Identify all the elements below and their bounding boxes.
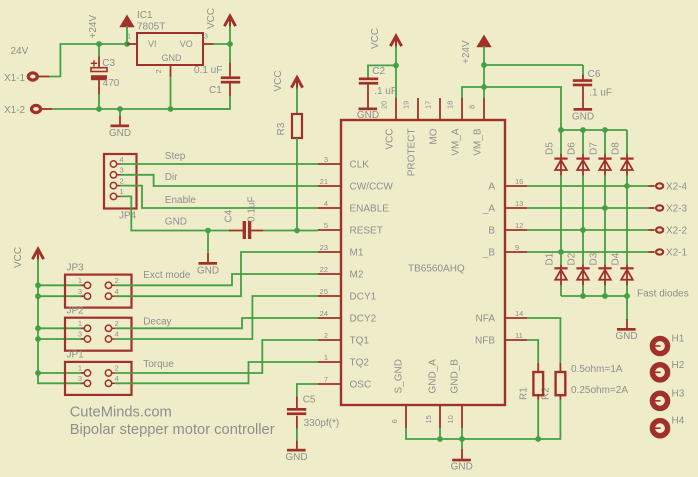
svg-text:Enable: Enable — [165, 195, 197, 206]
label 0.5ohm=1A — [571, 364, 623, 375]
IC pin 22 M2 — [318, 265, 364, 281]
svg-text:13: 13 — [515, 199, 523, 208]
svg-text:TQ2: TQ2 — [350, 358, 370, 369]
svg-text:2: 2 — [115, 364, 119, 373]
svg-text:D3: D3 — [589, 252, 600, 265]
svg-text:_A: _A — [482, 204, 496, 215]
svg-text:D8: D8 — [611, 142, 622, 155]
svg-text:A: A — [488, 182, 495, 193]
wire diode column 627 — [626, 176, 628, 265]
svg-text:VCC: VCC — [273, 70, 284, 91]
IC pin 3 CLK — [318, 155, 369, 171]
svg-text:19: 19 — [402, 101, 411, 109]
svg-text:1: 1 — [78, 276, 82, 285]
wire phase X2-1 — [527, 251, 648, 253]
svg-text:RESET: RESET — [350, 226, 383, 237]
svg-text:12: 12 — [515, 221, 523, 230]
svg-text:M1: M1 — [350, 248, 364, 259]
label Fast diodes — [637, 289, 689, 300]
diode D5 — [545, 130, 568, 176]
diode D3 — [589, 252, 612, 285]
svg-text:GND: GND — [162, 53, 183, 63]
svg-text:NFB: NFB — [475, 336, 495, 347]
supply +24V arrow (IC1) — [88, 15, 133, 43]
hole H3 — [652, 388, 684, 408]
hole H1 — [652, 334, 684, 354]
wire Step to CLK — [121, 163, 319, 165]
ground GND (input) — [109, 109, 131, 139]
svg-text:GND: GND — [285, 452, 307, 463]
svg-text:VCC: VCC — [384, 129, 395, 150]
diode D1 — [545, 252, 568, 285]
hole H2 — [652, 360, 684, 380]
node junction GND_A — [437, 436, 443, 442]
diode D8 — [611, 130, 634, 176]
svg-text:VCC: VCC — [206, 8, 217, 29]
wire D1 to bottom rail — [560, 285, 562, 296]
wire VCC to pin20 — [395, 65, 397, 98]
svg-text:NFA: NFA — [476, 314, 496, 325]
ground GND (C2) — [357, 108, 379, 122]
IC pin 23 M1 — [318, 243, 364, 259]
svg-text:18: 18 — [446, 101, 455, 109]
node junction +24V at C3 — [96, 41, 102, 47]
wire JP4 pin1 to GND net — [121, 196, 230, 230]
IC1 pin 1 VI — [127, 32, 137, 45]
wire rail to JP1 pin1 — [38, 372, 84, 374]
node junction rail jp2-1 — [35, 325, 41, 331]
IC pin 17 MO — [424, 98, 440, 145]
svg-text:X1-1: X1-1 — [4, 73, 26, 84]
svg-text:6: 6 — [390, 419, 399, 423]
svg-text:GND: GND — [109, 128, 131, 139]
wire VM_A up — [462, 87, 484, 98]
node junction X2-1 — [558, 249, 564, 255]
node junction +24V at IC1 pin1 — [124, 41, 130, 47]
wire OSC to C5 — [297, 384, 318, 397]
svg-text:H4: H4 — [672, 416, 685, 427]
IC pin 16 A — [488, 177, 527, 193]
wire D4 to bottom rail — [626, 285, 628, 296]
svg-text:D1: D1 — [545, 252, 556, 265]
svg-text:S_GND: S_GND — [394, 359, 405, 393]
svg-text:Fast diodes: Fast diodes — [637, 289, 689, 300]
wire phase X2-2 — [527, 229, 648, 231]
svg-text:R1: R1 — [519, 387, 530, 400]
svg-text:TB6560AHQ: TB6560AHQ — [408, 263, 465, 274]
wire rail to JP2 pin3 — [38, 338, 84, 340]
svg-text:X2-2: X2-2 — [666, 226, 688, 237]
wire JP1 pin2 to TQ1 — [115, 340, 318, 373]
svg-text:X2-3: X2-3 — [666, 204, 688, 215]
svg-text:VM_B: VM_B — [472, 128, 483, 156]
svg-text:C6: C6 — [588, 69, 601, 80]
svg-text:22: 22 — [320, 265, 328, 274]
node junction rail jp3-1 — [35, 282, 41, 288]
wire rail to JP2 pin1 — [38, 327, 84, 329]
wire GND_A drop — [439, 428, 441, 439]
IC pin 5 RESET — [318, 221, 383, 237]
node junction X2-3 — [602, 205, 608, 211]
svg-text:OSC: OSC — [350, 380, 372, 391]
IC pin 25 DCY1 — [318, 287, 377, 303]
label Enable — [165, 195, 197, 206]
IC pin 21 CW/CCW — [318, 177, 393, 193]
op-amp U1 TB6560AHQ body — [341, 120, 505, 405]
wire D2 to bottom rail — [582, 285, 584, 296]
wire phase X2-3 — [527, 207, 648, 209]
svg-text:IC1: IC1 — [137, 10, 153, 21]
ground GND (diodes) — [615, 296, 637, 342]
IC pin 6 S_GND — [390, 359, 406, 428]
svg-text:Exct mode: Exct mode — [143, 270, 191, 281]
svg-text:VO: VO — [180, 39, 193, 49]
svg-text:GND: GND — [165, 217, 187, 228]
svg-text:C3: C3 — [102, 58, 115, 69]
ground GND (JP4) — [197, 231, 219, 277]
IC pin 2 TQ1 — [318, 331, 369, 347]
wire GND_B drop — [461, 428, 463, 439]
wire diode top rail — [561, 129, 627, 131]
svg-text:25: 25 — [320, 287, 328, 296]
svg-text:C4: C4 — [224, 209, 235, 222]
node junction 24V-VM — [481, 84, 487, 90]
svg-text:15: 15 — [424, 415, 433, 423]
node junction gnd-C4 — [205, 228, 211, 234]
svg-text:4: 4 — [115, 330, 119, 339]
label Bipolar stepper motor controller — [70, 422, 275, 438]
node junction rail jp3-3 — [35, 293, 41, 299]
svg-text:.1 uF: .1 uF — [589, 88, 612, 99]
svg-text:16: 16 — [515, 177, 523, 186]
svg-text:C1: C1 — [209, 85, 222, 96]
svg-text:17: 17 — [424, 101, 433, 109]
wire Dir to CW/CCW — [121, 175, 319, 186]
svg-text:23: 23 — [320, 243, 328, 252]
svg-text:3: 3 — [204, 32, 208, 41]
label 24V — [11, 46, 29, 57]
wire JP3 pin4 to M1 — [115, 252, 318, 296]
svg-text:Dir: Dir — [165, 172, 178, 183]
resistor R2 — [538, 363, 565, 439]
node junction rail jp1-1 — [35, 370, 41, 376]
svg-text:Decay: Decay — [143, 317, 171, 328]
supply VCC arrow (C1) — [206, 8, 236, 43]
node junction brail D2 — [580, 293, 586, 299]
svg-text:0.1 uF: 0.1 uF — [194, 65, 222, 76]
svg-text:B: B — [488, 226, 495, 237]
svg-text:24: 24 — [320, 309, 328, 318]
node junction brail D3 — [602, 293, 608, 299]
svg-text:CW/CCW: CW/CCW — [350, 182, 394, 193]
svg-text:VI: VI — [148, 39, 157, 49]
wire 24V to diode rail — [484, 87, 561, 130]
svg-text:24V: 24V — [11, 46, 29, 57]
svg-text:9: 9 — [515, 243, 519, 252]
label 0.25ohm=2A — [571, 385, 628, 396]
svg-text:GND_B: GND_B — [450, 359, 461, 394]
wire GND rail bottom-left — [52, 108, 230, 110]
wire rail to JP3 pin3 — [38, 295, 84, 297]
svg-text:4: 4 — [115, 374, 119, 383]
wire JP1 pin4 to TQ2 — [115, 362, 318, 383]
hole H4 — [652, 416, 684, 436]
svg-text:3: 3 — [324, 155, 328, 164]
connector pad X2-2 — [648, 226, 687, 237]
diode D2 — [567, 252, 590, 285]
IC pin 14 NFA — [476, 309, 527, 325]
svg-text:H3: H3 — [672, 388, 685, 399]
wire IC gnd rail — [406, 428, 538, 439]
pin header JP4 — [104, 154, 137, 222]
svg-text:C5: C5 — [303, 395, 316, 406]
node junction X2-4 — [624, 183, 630, 189]
node junction X2-2 — [580, 227, 586, 233]
svg-text:3: 3 — [120, 166, 124, 175]
svg-text:3: 3 — [78, 330, 82, 339]
svg-text:0.25ohm=2A: 0.25ohm=2A — [571, 385, 628, 396]
svg-text:330pf(*): 330pf(*) — [304, 418, 340, 429]
svg-text:+24V: +24V — [461, 40, 472, 64]
svg-text:4: 4 — [324, 199, 328, 208]
svg-text:20: 20 — [380, 101, 389, 109]
wire X1-1 to +24V rail — [49, 44, 127, 77]
svg-text:.1 uF: .1 uF — [374, 86, 397, 97]
wire diode column 605 — [604, 176, 606, 265]
wire Enable to ENABLE — [121, 186, 319, 208]
supply +24V arrow (VM) — [461, 36, 490, 65]
svg-text:CuteMinds.com: CuteMinds.com — [70, 404, 172, 420]
svg-text:JP2: JP2 — [67, 305, 85, 316]
label GND (jp4) — [165, 217, 187, 228]
ground GND (C6) — [572, 108, 594, 123]
IC pin 7 OSC — [318, 375, 371, 391]
IC pin 11 NFB — [475, 331, 527, 347]
jumper JP1 — [65, 350, 174, 395]
svg-text:4: 4 — [115, 287, 119, 296]
node junction VCC at C1 — [227, 41, 233, 47]
wire NFB to R1 — [527, 340, 538, 363]
svg-text:2: 2 — [115, 319, 119, 328]
diode D7 — [589, 130, 612, 176]
node junction rail jp2-3 — [35, 336, 41, 342]
wire IC1 pin2 down — [170, 77, 172, 110]
svg-text:GND: GND — [357, 110, 379, 121]
supply VCC arrow (left rail) — [13, 247, 44, 268]
svg-text:10: 10 — [446, 415, 455, 423]
IC pin 1 TQ2 — [318, 353, 369, 369]
svg-text:11: 11 — [515, 331, 523, 340]
svg-text:14: 14 — [515, 309, 523, 318]
svg-text:3: 3 — [78, 374, 82, 383]
wire JP2 pin4 to DCY1 — [115, 296, 318, 339]
connector pad X1-2 — [4, 105, 52, 116]
wire VCC rail left — [38, 259, 84, 383]
supply VCC arrow (R3) — [273, 70, 303, 91]
svg-text:X1-2: X1-2 — [4, 105, 26, 116]
IC pin 12 B — [488, 221, 527, 237]
svg-text:DCY2: DCY2 — [350, 314, 377, 325]
IC pin 9 _B — [482, 243, 527, 259]
voltage regulator IC1 7805T — [137, 10, 203, 65]
svg-text:X2-4: X2-4 — [666, 182, 688, 193]
supply VCC arrow (C2) — [370, 28, 402, 65]
IC pin 15 GND_A — [424, 359, 440, 428]
connector pad X1-1 — [4, 73, 49, 84]
svg-text:DCY1: DCY1 — [350, 292, 377, 303]
capacitor C1 0.1uF — [171, 44, 241, 109]
svg-text:2: 2 — [154, 69, 163, 73]
node junction R1 gnd — [535, 436, 541, 442]
svg-text:MO: MO — [428, 128, 439, 144]
ground GND (IC) — [451, 439, 473, 473]
svg-text:2: 2 — [120, 176, 124, 185]
IC pin 8 VM_B — [468, 98, 484, 156]
resistor R3 — [276, 88, 302, 231]
node junction gnd at gndsym — [117, 106, 123, 112]
node junction rail D5 — [558, 127, 564, 133]
svg-text:TQ1: TQ1 — [350, 336, 370, 347]
svg-text:1: 1 — [78, 319, 82, 328]
IC pin 20 VCC — [380, 98, 396, 150]
node junction rail D6 — [580, 127, 586, 133]
svg-text:D6: D6 — [567, 142, 578, 155]
diode D6 — [567, 130, 590, 176]
IC pin 10 GND_B — [446, 359, 462, 428]
ground GND (C5) — [285, 449, 307, 463]
wire phase X2-4 — [527, 185, 648, 187]
connector pad X2-4 — [648, 182, 687, 193]
svg-text:2: 2 — [324, 331, 328, 340]
label CuteMinds.com — [70, 404, 172, 420]
svg-text:D5: D5 — [545, 142, 556, 155]
wire diode column 561 — [560, 176, 562, 265]
wire VO to VCC node — [214, 43, 231, 45]
svg-text:_B: _B — [482, 248, 496, 259]
node junction gnd at C3 — [96, 106, 102, 112]
capacitor C6 .1 uF — [573, 65, 612, 108]
svg-text:Bipolar stepper motor controll: Bipolar stepper motor controller — [70, 422, 275, 438]
svg-text:PROTECT: PROTECT — [406, 129, 417, 177]
capacitor C5 330pf — [287, 395, 339, 449]
capacitor C3 (electrolytic 470) — [91, 44, 120, 109]
svg-text:R3: R3 — [276, 122, 287, 135]
svg-text:GND: GND — [197, 266, 219, 277]
IC pin 18 VM_A — [446, 98, 462, 156]
svg-text:JP1: JP1 — [67, 350, 85, 361]
capacitor C2 .1uF — [359, 65, 397, 107]
svg-text:GND_A: GND_A — [428, 359, 439, 394]
wire NFA to R2 — [527, 318, 560, 363]
diode D4 — [611, 252, 634, 285]
svg-text:H1: H1 — [672, 334, 685, 345]
svg-text:1: 1 — [324, 353, 328, 362]
IC pin 24 DCY2 — [318, 309, 377, 325]
svg-text:JP3: JP3 — [67, 262, 85, 273]
connector pad X2-1 — [648, 248, 687, 259]
svg-text:7805T: 7805T — [137, 22, 165, 33]
svg-text:3: 3 — [78, 287, 82, 296]
node junction brail D4 — [624, 293, 630, 299]
node junction GND_B — [459, 436, 465, 442]
svg-text:0.1uF: 0.1uF — [247, 196, 258, 222]
svg-text:GND: GND — [451, 462, 473, 473]
node junction gnd at IC1 pin2 — [168, 106, 174, 112]
svg-text:7: 7 — [324, 375, 328, 384]
svg-text:GND: GND — [615, 331, 637, 342]
IC1 pin 2 GND — [154, 65, 171, 77]
IC1 pin 3 VO — [203, 32, 214, 45]
label Step — [165, 151, 186, 162]
jumper JP3 — [65, 262, 191, 307]
node junction 24V-C6 — [481, 62, 487, 68]
svg-text:2: 2 — [115, 276, 119, 285]
svg-text:+24V: +24V — [88, 15, 99, 39]
svg-text:1: 1 — [120, 187, 124, 196]
IC pin 4 ENABLE — [318, 199, 389, 215]
wire rail to JP3 pin1 — [38, 284, 84, 286]
wire JP3 pin2 to M2 — [115, 274, 318, 285]
svg-text:1: 1 — [127, 32, 131, 41]
svg-text:470: 470 — [103, 78, 120, 89]
svg-text:Step: Step — [165, 151, 186, 162]
node junction VCC-C2 — [393, 63, 399, 69]
svg-text:ENABLE: ENABLE — [350, 204, 390, 215]
svg-text:D7: D7 — [589, 142, 600, 155]
svg-text:D4: D4 — [611, 252, 622, 265]
svg-text:VCC: VCC — [370, 28, 381, 49]
svg-text:CLK: CLK — [350, 160, 370, 171]
node junction RESET-R3 — [294, 228, 300, 234]
svg-text:4: 4 — [120, 155, 124, 164]
capacitor C4 0.1uF — [224, 196, 318, 239]
wire diode bottom rail — [561, 295, 627, 297]
svg-text:D2: D2 — [567, 252, 578, 265]
svg-text:0.5ohm=1A: 0.5ohm=1A — [571, 364, 623, 375]
svg-text:X2-1: X2-1 — [666, 248, 688, 259]
wire 24V to C6 — [484, 64, 583, 66]
connector pad X2-3 — [648, 204, 687, 215]
IC pin 13 _A — [482, 199, 527, 215]
svg-text:JP4: JP4 — [119, 211, 137, 222]
svg-text:8: 8 — [468, 105, 477, 109]
resistor R1 — [519, 363, 544, 439]
wire diode column 583 — [582, 176, 584, 265]
svg-text:1: 1 — [78, 364, 82, 373]
svg-text:VCC: VCC — [13, 247, 24, 268]
svg-text:Torque: Torque — [143, 359, 174, 370]
svg-text:C2: C2 — [372, 66, 385, 77]
label Dir — [165, 172, 178, 183]
jumper JP2 — [65, 305, 172, 350]
svg-text:H2: H2 — [672, 360, 685, 371]
node junction rail D7 — [602, 127, 608, 133]
wire 24V vertical — [483, 65, 485, 98]
svg-text:5: 5 — [324, 221, 328, 230]
svg-text:VM_A: VM_A — [450, 128, 461, 156]
svg-text:M2: M2 — [350, 270, 364, 281]
wire JP2 pin2 to DCY2 — [115, 318, 318, 328]
svg-text:21: 21 — [320, 177, 328, 186]
svg-text:GND: GND — [572, 112, 594, 123]
IC pin 19 PROTECT — [402, 98, 418, 176]
wire D3 to bottom rail — [604, 285, 606, 296]
